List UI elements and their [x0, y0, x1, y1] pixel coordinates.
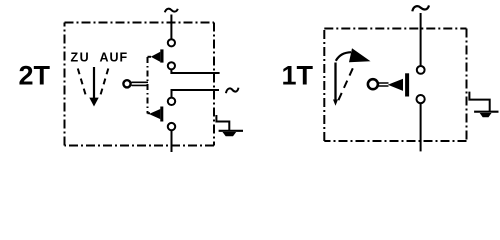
svg-text:ZU: ZU [71, 50, 91, 64]
svg-text:2T: 2T [19, 60, 51, 90]
svg-text:AUF: AUF [100, 50, 129, 64]
svg-text:1T: 1T [282, 60, 314, 90]
